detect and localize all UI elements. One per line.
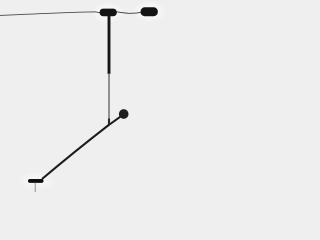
- lamp head disc: [28, 179, 44, 183]
- glow around lamp head: [17, 171, 57, 191]
- canopy disc left: [100, 9, 117, 17]
- sagging wire between discs: [116, 12, 142, 14]
- junction dark tip: [108, 119, 110, 125]
- glow around ceiling discs: [91, 2, 125, 24]
- diagonal arm to lamp head: [42, 125, 109, 180]
- counterweight ball: [119, 109, 129, 119]
- vertical rod lower gray section: [108, 74, 110, 124]
- canopy disc right: [141, 7, 158, 16]
- lamp head stem: [34, 183, 36, 192]
- counterweight link: [109, 115, 122, 124]
- vertical rod upper black section: [108, 14, 111, 74]
- left suspension wire: [0, 12, 101, 16]
